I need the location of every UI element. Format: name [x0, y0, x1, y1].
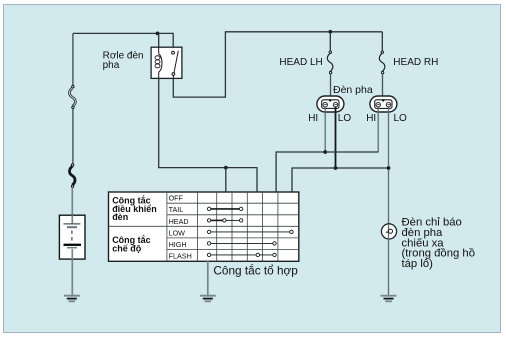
- svg-text:OFF: OFF: [169, 194, 184, 203]
- wire: switch box to ground: [207, 261, 209, 296]
- relay U (headlight relay) box: [151, 47, 182, 78]
- ground (combination switch): [200, 296, 216, 302]
- svg-text:HEAD LH: HEAD LH: [279, 57, 322, 68]
- switch contacts FLASH row: [207, 253, 276, 256]
- wire: battery feed lower segment into battery: [71, 187, 73, 224]
- svg-text:chế độ: chế độ: [112, 243, 142, 253]
- svg-text:TAIL: TAIL: [169, 205, 184, 214]
- wire: relay switch output down-right-up: [173, 32, 382, 97]
- ground (battery): [64, 296, 80, 302]
- wire: top wire right end down into relay switch: [172, 33, 174, 47]
- wire: branch from junction down to relay coil: [158, 33, 160, 47]
- svg-text:HI: HI: [308, 113, 318, 124]
- svg-text:HI: HI: [366, 113, 376, 124]
- wire: relay coil output down: [158, 78, 160, 167]
- wire: LH bulb HI terminal down: [324, 107, 326, 152]
- wire: battery feed top horizontal: [73, 32, 173, 34]
- svg-text:LOW: LOW: [169, 228, 186, 237]
- wire: battery feed mid segment: [72, 109, 74, 164]
- battery box: [59, 215, 85, 259]
- svg-text:Công tắc tổ hợp: Công tắc tổ hợp: [213, 263, 298, 277]
- fusible link (lower S symbol): [69, 164, 75, 188]
- switch contacts HEAD row: [207, 219, 242, 222]
- row labels: [169, 194, 192, 261]
- switch contacts HIGH row: [207, 242, 276, 245]
- relay switch contacts: [172, 51, 179, 79]
- high-beam indicator bulb: [381, 224, 396, 239]
- headlight bulb RH: [370, 96, 397, 112]
- wire: right headlight drop to fuse: [381, 32, 383, 51]
- ground (indicator): [381, 296, 397, 302]
- indicator filament: [386, 229, 393, 233]
- wire: fuse to right bulb: [382, 74, 384, 101]
- node: LO rail junction indicator: [387, 166, 391, 170]
- fuse HEAD LH (S symbol): [327, 51, 333, 74]
- fuse HEAD RH (S symbol): [379, 51, 385, 74]
- label: Den chi bao den pha chieu xa (trong dong ho tap lo): [402, 217, 476, 270]
- wire: LO rail: [292, 168, 389, 192]
- wire: HI rail: [276, 152, 378, 192]
- wire: left headlight drop to fuse: [329, 32, 331, 51]
- svg-text:LO: LO: [338, 113, 352, 124]
- svg-text:táp lô): táp lô): [402, 258, 434, 270]
- node: junction on top wire to relay coil: [156, 32, 160, 36]
- switch contacts LOW row: [207, 230, 293, 233]
- battery internals: [64, 215, 82, 259]
- svg-text:LO: LO: [394, 113, 408, 124]
- svg-text:HEAD: HEAD: [169, 217, 189, 226]
- svg-text:HEAD RH: HEAD RH: [393, 57, 438, 68]
- wire: LH bulb LO terminal down (highlighted): [335, 107, 337, 168]
- switch contacts TAIL row: [207, 207, 242, 210]
- wire: coil output horizontal to switch box: [158, 168, 257, 192]
- svg-text:pha: pha: [103, 60, 120, 71]
- combination switch box: [109, 192, 299, 261]
- relay coil: [155, 47, 162, 78]
- node: HI rail junction LH: [323, 150, 327, 154]
- svg-text:đèn: đèn: [112, 212, 128, 222]
- switch grid lines: [109, 192, 299, 261]
- fusible link FL (upper S symbol): [69, 85, 75, 108]
- wire: RH bulb LO terminal down to indicator: [388, 107, 390, 224]
- wire: battery feed left vertical (upper segment): [72, 33, 74, 85]
- node: junction branch into box: [224, 166, 228, 170]
- svg-text:Đèn pha: Đèn pha: [333, 84, 373, 96]
- node: junction left headlight tap: [328, 30, 332, 34]
- wire: fuse to left bulb: [330, 74, 332, 101]
- svg-text:FLASH: FLASH: [169, 252, 192, 261]
- svg-text:HIGH: HIGH: [169, 240, 187, 249]
- headlight bulb LH: [317, 96, 344, 112]
- wire: RH bulb HI terminal down: [377, 107, 379, 152]
- wire: battery to ground: [71, 259, 73, 295]
- node: LO rail junction LH: [334, 166, 338, 170]
- wire: branch down into box: [225, 168, 227, 192]
- wire through indicator: [388, 224, 390, 296]
